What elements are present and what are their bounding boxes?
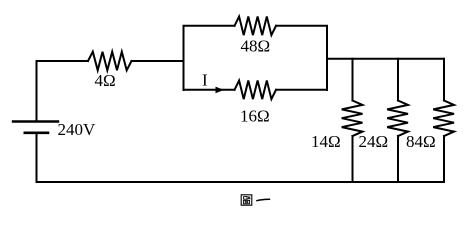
wire: battery- to bottom bus (left vertical lower) — [36, 133, 38, 182]
wire: 14-ohm bottom lead — [352, 136, 354, 182]
svg-text:48Ω: 48Ω — [241, 37, 271, 56]
resistor 14ohm (shunt) — [342, 101, 363, 137]
resistor 24ohm (shunt) — [387, 101, 408, 137]
current arrow for I on bottom branch — [216, 87, 224, 94]
wire: top branch right segment — [276, 25, 327, 27]
wire: 24-ohm bottom lead — [397, 136, 399, 182]
wire: 84-ohm top lead — [443, 59, 445, 101]
svg-text:84Ω: 84Ω — [406, 132, 436, 151]
wire: bottom branch left segment (with current I) — [184, 89, 235, 91]
resistor 48ohm (top branch) — [235, 17, 277, 36]
node: parallel-pair right junction (vertical bus) — [326, 26, 328, 90]
wire: battery+ to top wire (left vertical upper) — [36, 61, 38, 121]
svg-text:16Ω: 16Ω — [240, 106, 270, 125]
svg-text:I: I — [202, 71, 208, 90]
resistor 4ohm (series) — [88, 52, 132, 71]
wire: 24-ohm top lead — [397, 59, 399, 101]
caption: figure title glyph 2 (CJK dash) — [257, 199, 270, 201]
svg-text:240V: 240V — [58, 120, 97, 139]
wire: 14-ohm top lead — [352, 59, 354, 101]
wire: top-left horizontal (battery+ to 4-ohm resistor) — [37, 60, 89, 62]
battery 240V: negative plate (short) — [25, 132, 48, 135]
wire: bottom return bus — [37, 181, 445, 183]
svg-text:24Ω: 24Ω — [359, 132, 389, 151]
wire: parallel-pair right node to right bank top bus — [327, 58, 444, 60]
wire: top branch left segment — [184, 25, 235, 27]
resistor 84ohm (shunt) — [433, 101, 454, 137]
wire: bottom branch right segment — [276, 89, 327, 91]
resistor 16ohm (bottom branch) — [235, 81, 277, 100]
svg-text:4Ω: 4Ω — [95, 71, 116, 90]
battery 240V: positive plate (long) — [13, 120, 58, 122]
node: parallel-pair left junction (vertical bus) — [183, 26, 185, 90]
caption: figure title glyph 1 (CJK drawn as strokes) — [241, 195, 252, 205]
svg-text:14Ω: 14Ω — [311, 132, 341, 151]
wire: 4-ohm resistor to parallel-pair left node — [132, 60, 184, 62]
wire: 84-ohm bottom lead — [443, 136, 445, 182]
